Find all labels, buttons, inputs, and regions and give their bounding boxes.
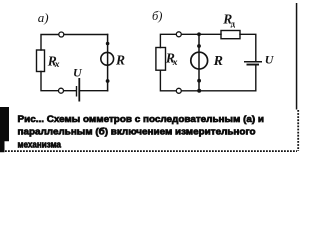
- svg-text:x: x: [172, 58, 178, 68]
- svg-text:R: R: [213, 54, 223, 69]
- svg-text:U: U: [73, 66, 83, 80]
- svg-text:x: x: [54, 60, 60, 70]
- svg-text:д: д: [231, 18, 236, 28]
- svg-text:Рис... Схемы омметров с после: Рис... Схемы омметров с последовательным…: [18, 114, 265, 124]
- svg-text:б): б): [152, 9, 162, 23]
- svg-text:R: R: [115, 52, 125, 67]
- svg-text:параллельным (б) включением из: параллельным (б) включением измерительно…: [18, 127, 257, 137]
- svg-text:а): а): [38, 10, 49, 25]
- svg-text:механизма: механизма: [18, 140, 62, 150]
- svg-text:U: U: [265, 53, 275, 67]
